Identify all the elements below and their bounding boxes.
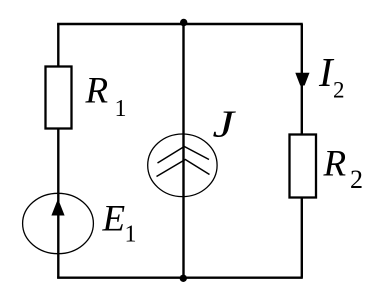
svg-text:J: J (213, 103, 237, 145)
resistor R2 body (290, 135, 317, 198)
EMF source E1 arrow (points up) (51, 199, 64, 216)
svg-text:R: R (323, 143, 347, 184)
current I2 arrow (points down) (295, 73, 309, 86)
node junction dot bottom (middle branch to bottom wire) (180, 275, 187, 282)
current source J upper chevron (158, 147, 210, 164)
wire middle branch (182, 24, 184, 278)
EMF source E1 circle (23, 193, 94, 253)
svg-text:2: 2 (333, 78, 345, 103)
wire right branch (301, 24, 303, 278)
wire bottom (node between branches) (57, 277, 303, 279)
svg-text:2: 2 (350, 165, 363, 194)
svg-text:1: 1 (125, 221, 137, 247)
node junction dot top (middle branch to top wire) (180, 19, 187, 26)
svg-text:1: 1 (115, 96, 127, 122)
svg-text:E: E (102, 199, 126, 240)
svg-text:R: R (85, 71, 109, 112)
wire left branch (57, 24, 59, 278)
resistor R1 body (46, 67, 72, 129)
current source J circle (148, 134, 217, 197)
current source J lower chevron (157, 160, 210, 177)
wire top (node between branches) (57, 23, 303, 25)
